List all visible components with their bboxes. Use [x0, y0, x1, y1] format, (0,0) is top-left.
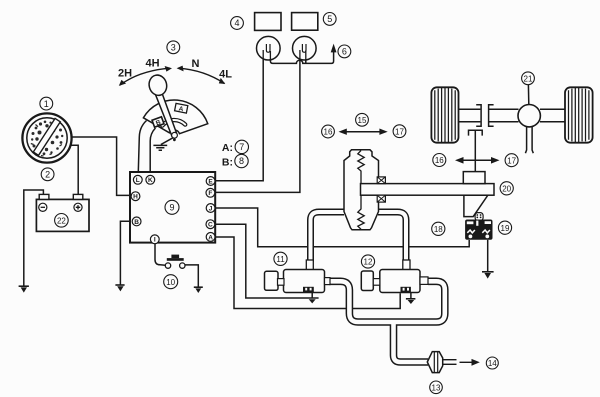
- svg-text:B: B: [134, 219, 139, 226]
- battery plus: [74, 203, 82, 211]
- housing above bar: [463, 172, 485, 184]
- label (15): [356, 113, 369, 126]
- svg-text:E: E: [208, 178, 213, 185]
- svg-text:18: 18: [434, 225, 443, 234]
- shift gate arcs: [120, 68, 225, 85]
- svg-text:7: 7: [239, 142, 244, 152]
- disconnect bracket right: [489, 105, 494, 127]
- svg-text:20: 20: [502, 185, 511, 194]
- label (3): [167, 41, 180, 54]
- svg-text:H: H: [133, 194, 138, 201]
- hose actuator left to valve 11: [311, 212, 345, 262]
- gauge needle band: [33, 118, 60, 155]
- solenoid valve 12: [361, 260, 428, 293]
- label (10): [164, 275, 178, 289]
- hose check valve outlet: [443, 359, 457, 365]
- label (2): [41, 168, 54, 181]
- ground valve 12: [410, 293, 412, 299]
- lever knob: [147, 73, 169, 97]
- svg-text:4: 4: [234, 18, 239, 28]
- bulb left: [257, 36, 281, 60]
- terminal F: [206, 188, 215, 197]
- housing trapezoid below bar: [464, 195, 488, 216]
- wire battery negative to ground: [24, 190, 44, 286]
- label (9): [165, 200, 179, 214]
- label (14): [486, 357, 498, 369]
- svg-text:4H: 4H: [145, 57, 159, 69]
- indicator rect (5): [292, 13, 318, 31]
- wire lever to terminal K: [150, 128, 155, 175]
- switch 19: [465, 213, 492, 240]
- svg-text:15: 15: [358, 116, 367, 125]
- solenoid valve 11: [265, 260, 331, 293]
- label (21): [522, 72, 535, 85]
- terminal A: [206, 233, 215, 242]
- bearing top: [377, 177, 385, 184]
- svg-text:17: 17: [507, 156, 516, 165]
- svg-text:8: 8: [239, 156, 244, 166]
- svg-text:10: 10: [166, 278, 175, 287]
- svg-text:A: A: [208, 234, 213, 241]
- wire bulbs to arrow 6: [270, 50, 333, 63]
- gauge (1) outer: [22, 113, 71, 162]
- check valve 13: [427, 352, 442, 373]
- bulb right: [293, 36, 317, 60]
- white centers: [311, 212, 345, 262]
- svg-text:11: 11: [276, 255, 285, 264]
- wire switch 10 to ground: [185, 265, 198, 287]
- label (4): [231, 17, 244, 30]
- svg-text:J: J: [209, 205, 213, 212]
- wire stubs inside bulbs: [263, 50, 306, 62]
- axle segments: [459, 109, 481, 122]
- svg-text:6: 6: [342, 47, 347, 57]
- svg-text:A:: A:: [222, 142, 233, 154]
- differential 21: [518, 105, 540, 127]
- svg-text:13: 13: [432, 384, 441, 393]
- ground battery: [19, 285, 29, 287]
- actuator 18: [344, 150, 379, 230]
- label (22): [55, 214, 69, 228]
- svg-text:16: 16: [435, 156, 444, 165]
- svg-text:16: 16: [324, 128, 333, 137]
- shift lever sector (3): [143, 100, 207, 134]
- svg-text:19: 19: [501, 224, 510, 233]
- fork stem wheels to housing: [474, 130, 476, 171]
- hose actuator right to valve 12: [378, 212, 406, 262]
- wire terminal F to bulb 5: [215, 52, 300, 192]
- svg-text:2: 2: [45, 170, 50, 180]
- svg-text:21: 21: [524, 75, 533, 84]
- wire terminal I to switch 10: [155, 243, 165, 265]
- driveshaft down from differential: [525, 125, 533, 153]
- gate slot: [162, 120, 185, 126]
- svg-text:12: 12: [364, 258, 373, 267]
- svg-text:K: K: [148, 177, 153, 184]
- wire gauge to terminal H: [71, 137, 131, 195]
- battery (22): [36, 199, 89, 231]
- terminal L: [133, 175, 142, 184]
- shaft bar 20: [361, 172, 495, 217]
- svg-text:17: 17: [395, 127, 404, 136]
- battery minus: [39, 203, 47, 211]
- wire switch 19 to ground: [487, 240, 489, 272]
- label (11): [274, 252, 287, 265]
- svg-text:F: F: [208, 190, 212, 197]
- terminal I: [150, 235, 159, 244]
- svg-text:L: L: [136, 177, 140, 184]
- svg-text:3: 3: [171, 43, 176, 53]
- terminal J: [206, 204, 215, 213]
- label (16)b: [433, 154, 446, 167]
- svg-text:N: N: [192, 58, 200, 70]
- hose branch to check valve: [394, 322, 429, 362]
- label (20): [500, 182, 513, 195]
- label (12): [361, 255, 374, 268]
- label (13): [430, 381, 443, 394]
- label (17)b: [505, 154, 518, 167]
- direction arrows 16/17 lower: [460, 159, 494, 161]
- svg-text:9: 9: [169, 203, 174, 213]
- wire terminal A to valve 12: [215, 237, 400, 309]
- bearing bottom: [377, 195, 385, 202]
- svg-text:2H: 2H: [118, 67, 132, 79]
- terminal C: [206, 220, 215, 229]
- disconnect bracket left: [476, 105, 481, 127]
- label (5): [323, 13, 336, 26]
- lever ground: [153, 138, 173, 150]
- label (19): [498, 221, 511, 234]
- lever shaft: [155, 93, 177, 136]
- label (1): [40, 97, 53, 110]
- wire terminal E to bulb 4: [215, 52, 263, 181]
- svg-text:5: 5: [327, 14, 332, 24]
- right tire: [565, 87, 593, 142]
- indicator rect (4): [255, 13, 281, 31]
- B position box: [152, 117, 164, 128]
- wire terminal B to ground: [120, 221, 131, 284]
- left tire: [431, 87, 458, 142]
- control box (9): [130, 172, 215, 243]
- svg-text:I: I: [154, 237, 156, 244]
- wire lever to terminal L: [138, 121, 146, 176]
- svg-text:22: 22: [57, 217, 66, 226]
- pointer label 21 to differential: [527, 85, 529, 104]
- wire battery positive to gauge: [71, 145, 78, 194]
- label (6): [338, 45, 351, 58]
- ground valve 11: [311, 292, 313, 298]
- svg-text:B:: B:: [222, 156, 233, 168]
- wire terminal C to valve 11 ground node: [215, 224, 318, 298]
- svg-text:1: 1: [44, 99, 49, 109]
- label (16): [322, 125, 335, 138]
- hose supply loop valve 11 to valve 12: [329, 281, 445, 322]
- switch 10: [165, 255, 185, 269]
- terminal B: [132, 217, 141, 226]
- svg-text:C: C: [208, 222, 213, 229]
- arrow 6 head: [331, 44, 337, 53]
- svg-text:4L: 4L: [219, 68, 232, 80]
- label (17): [393, 125, 406, 138]
- ground B wire: [115, 284, 124, 286]
- label (18): [432, 222, 445, 235]
- A position box: [174, 103, 187, 114]
- svg-text:14: 14: [488, 359, 497, 368]
- direction arrows 16/17 upper: [344, 131, 382, 133]
- fork: [469, 130, 483, 135]
- terminal E: [206, 177, 215, 186]
- arrow to 14: [460, 361, 473, 363]
- wheels and axle: [431, 87, 592, 142]
- label (7): [235, 140, 248, 153]
- label (8): [235, 154, 248, 167]
- wire terminal J to switch 19: [215, 208, 469, 247]
- terminal H: [131, 192, 140, 201]
- terminal K: [146, 175, 155, 184]
- pivot: [172, 132, 178, 138]
